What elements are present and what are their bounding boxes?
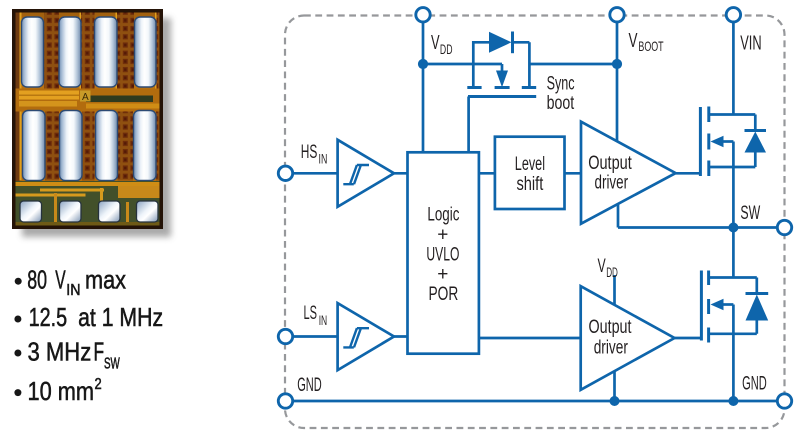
svg-text:LS: LS bbox=[304, 303, 318, 324]
svg-text:V: V bbox=[55, 265, 66, 295]
svg-text:80: 80 bbox=[27, 265, 47, 295]
svg-text:at 1 MHz: at 1 MHz bbox=[78, 302, 163, 332]
svg-text:SW: SW bbox=[104, 356, 120, 373]
svg-text:Level: Level bbox=[515, 154, 545, 175]
svg-text:driver: driver bbox=[595, 173, 629, 194]
svg-text:UVLO: UVLO bbox=[426, 244, 459, 265]
svg-text:driver: driver bbox=[594, 338, 629, 359]
svg-text:IN: IN bbox=[319, 150, 328, 166]
svg-text:shift: shift bbox=[517, 174, 544, 195]
svg-text:+: + bbox=[437, 264, 448, 285]
svg-text:BOOT: BOOT bbox=[638, 38, 663, 54]
svg-text:2: 2 bbox=[95, 376, 102, 393]
svg-text:12.5: 12.5 bbox=[29, 302, 68, 332]
svg-text:Output: Output bbox=[589, 317, 633, 338]
svg-text:GND: GND bbox=[742, 374, 767, 395]
svg-text:Sync: Sync bbox=[547, 74, 575, 95]
svg-text:A: A bbox=[82, 92, 89, 103]
svg-text:V: V bbox=[431, 32, 440, 54]
svg-text:DD: DD bbox=[440, 41, 453, 57]
svg-text:VIN: VIN bbox=[740, 33, 761, 55]
svg-text:HS: HS bbox=[301, 142, 318, 163]
svg-text:+: + bbox=[437, 224, 448, 245]
svg-text:DD: DD bbox=[606, 264, 618, 280]
svg-text:Output: Output bbox=[588, 153, 632, 174]
svg-text:max: max bbox=[85, 265, 126, 295]
svg-text:boot: boot bbox=[547, 93, 575, 114]
svg-text:GND: GND bbox=[297, 375, 322, 396]
svg-text:IN: IN bbox=[319, 312, 328, 328]
svg-text:V: V bbox=[598, 256, 606, 277]
svg-text:SW: SW bbox=[740, 203, 760, 224]
svg-text:IN: IN bbox=[66, 282, 80, 299]
svg-text:Logic: Logic bbox=[427, 205, 459, 226]
svg-text:3 MHz: 3 MHz bbox=[28, 336, 92, 366]
svg-text:V: V bbox=[629, 30, 638, 52]
svg-text:10 mm: 10 mm bbox=[28, 376, 95, 406]
svg-text:POR: POR bbox=[429, 284, 459, 305]
svg-text:F: F bbox=[94, 336, 105, 366]
